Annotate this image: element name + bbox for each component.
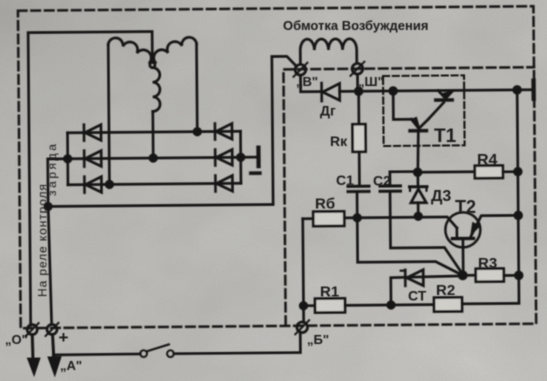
capacitor C1 <box>348 186 369 191</box>
arrow О output down <box>27 335 40 376</box>
terminal Б <box>295 320 309 334</box>
diode VD3 (bridge row3 left) <box>84 176 101 192</box>
transistor T1 (composite) <box>390 87 455 172</box>
svg-text:R3: R3 <box>478 255 497 272</box>
wire right bus <box>239 131 242 183</box>
node left bus row2 junction <box>64 155 71 162</box>
svg-text:Обмотка Возбуждения: Обмотка Возбуждения <box>283 18 428 33</box>
svg-text:„А": „А" <box>60 358 82 373</box>
stator winding phase 3 (right coil) <box>154 37 197 62</box>
svg-text:С2: С2 <box>373 173 391 189</box>
wire C1 bottom down through bus <box>357 191 463 277</box>
wire plus takeoff from left bus <box>48 159 68 207</box>
zener CT <box>391 269 463 305</box>
node Д3-bus junction <box>415 213 422 220</box>
svg-text:+: + <box>59 328 69 347</box>
diode VD6 (bridge row3 right) <box>215 175 232 191</box>
terminal plus (А) <box>45 323 58 336</box>
svg-text:С1: С1 <box>336 172 354 188</box>
terminal В <box>293 63 307 77</box>
resistor Rб <box>303 211 345 226</box>
node CT tap <box>388 302 395 309</box>
svg-text:Rб: Rб <box>315 196 335 213</box>
wire C2 top to T1 emitter node <box>390 172 418 186</box>
svg-text:Т2: Т2 <box>455 197 476 217</box>
diode VD4 (bridge row1 right) <box>215 123 232 139</box>
terminal Ш <box>350 62 364 76</box>
svg-text:„Б": „Б" <box>307 332 329 347</box>
diode Дг <box>322 83 359 101</box>
node phase2-row2 junction <box>150 155 157 162</box>
node right bus R3 <box>515 272 522 279</box>
wire phase3 down <box>195 44 198 132</box>
wire left bus <box>66 133 69 185</box>
resistor Rк <box>352 91 366 185</box>
wire row2 <box>68 157 241 159</box>
wire neutral: star centre to O terminal <box>28 32 155 326</box>
terminal О <box>26 323 39 336</box>
svg-text:R2: R2 <box>436 282 455 299</box>
svg-text:Rк: Rк <box>330 133 348 149</box>
wire base bus (Rб to T2) <box>344 217 457 229</box>
node Ш junction <box>355 88 362 95</box>
node C1-bus junction <box>354 214 361 221</box>
node R1/Rб tap <box>300 302 307 309</box>
node T1 emitter / C2 / R4 / Д3 <box>414 169 421 176</box>
wire top end bar at case <box>517 88 532 91</box>
svg-text:На реле контроля: На реле контроля <box>36 183 50 297</box>
svg-text:Т1: Т1 <box>434 126 457 147</box>
diode VD2 (bridge row2 left) <box>84 150 101 166</box>
svg-text:„О": „О" <box>5 332 28 347</box>
wire Ш node main (to T1 collectors and right) <box>357 73 517 92</box>
wire row1 <box>67 131 240 133</box>
node T2 base junction <box>459 272 466 279</box>
wire B terminal down <box>300 75 321 92</box>
wire phase2 down <box>151 111 154 158</box>
wire C2 bottom down through bus <box>390 191 463 275</box>
stator winding phase 1 (left coil) <box>108 38 151 63</box>
svg-text:заряда: заряда <box>45 142 59 197</box>
diode VD1 (bridge row1 left) <box>84 124 101 140</box>
transistor T2 <box>445 212 519 276</box>
capacitor C2 <box>380 186 401 191</box>
svg-text:R1: R1 <box>320 284 339 301</box>
arrow А output down <box>48 334 61 376</box>
node phase3-row1 junction <box>194 128 201 135</box>
resistor R1 <box>303 298 434 313</box>
wire phase1 down <box>108 44 109 184</box>
diode VD5 (bridge row2 right) <box>215 149 232 165</box>
regulator dashed enclosure <box>283 67 536 325</box>
switch <box>140 344 174 357</box>
stator winding phase 2 (centre coil) <box>152 68 160 112</box>
resistor R3 <box>463 268 519 281</box>
resistor R2 <box>434 297 462 311</box>
node right bus T2 emitter <box>515 212 522 219</box>
wire row3 <box>68 183 241 185</box>
node right bus R4 <box>514 168 521 175</box>
T1 dashed box <box>383 75 465 146</box>
svg-text:R4: R4 <box>477 152 498 169</box>
field winding (Обмотка Возбуждения) <box>300 39 357 64</box>
zener Д3 <box>409 172 427 216</box>
svg-text:СТ: СТ <box>408 288 427 304</box>
ground (bridge minus to case) <box>241 148 260 174</box>
node right bus row2 junction <box>237 154 244 161</box>
wire plus rail to B terminal of winding <box>47 56 298 206</box>
svg-text:„Ш": „Ш" <box>358 74 384 89</box>
node phase1-row3 junction <box>106 181 113 188</box>
node star centre tap <box>150 62 155 67</box>
svg-text:Дг: Дг <box>320 103 336 119</box>
node plus tap <box>45 203 51 209</box>
wire Б vertical <box>301 219 305 322</box>
node right bus top <box>514 86 521 93</box>
svg-text:„В": „В" <box>296 74 318 89</box>
wire plus down to "+" terminal <box>48 206 52 324</box>
wire battery bottom <box>53 353 140 357</box>
svg-text:Д3: Д3 <box>431 188 451 205</box>
right bus <box>460 90 519 304</box>
resistor R4 <box>418 165 518 178</box>
